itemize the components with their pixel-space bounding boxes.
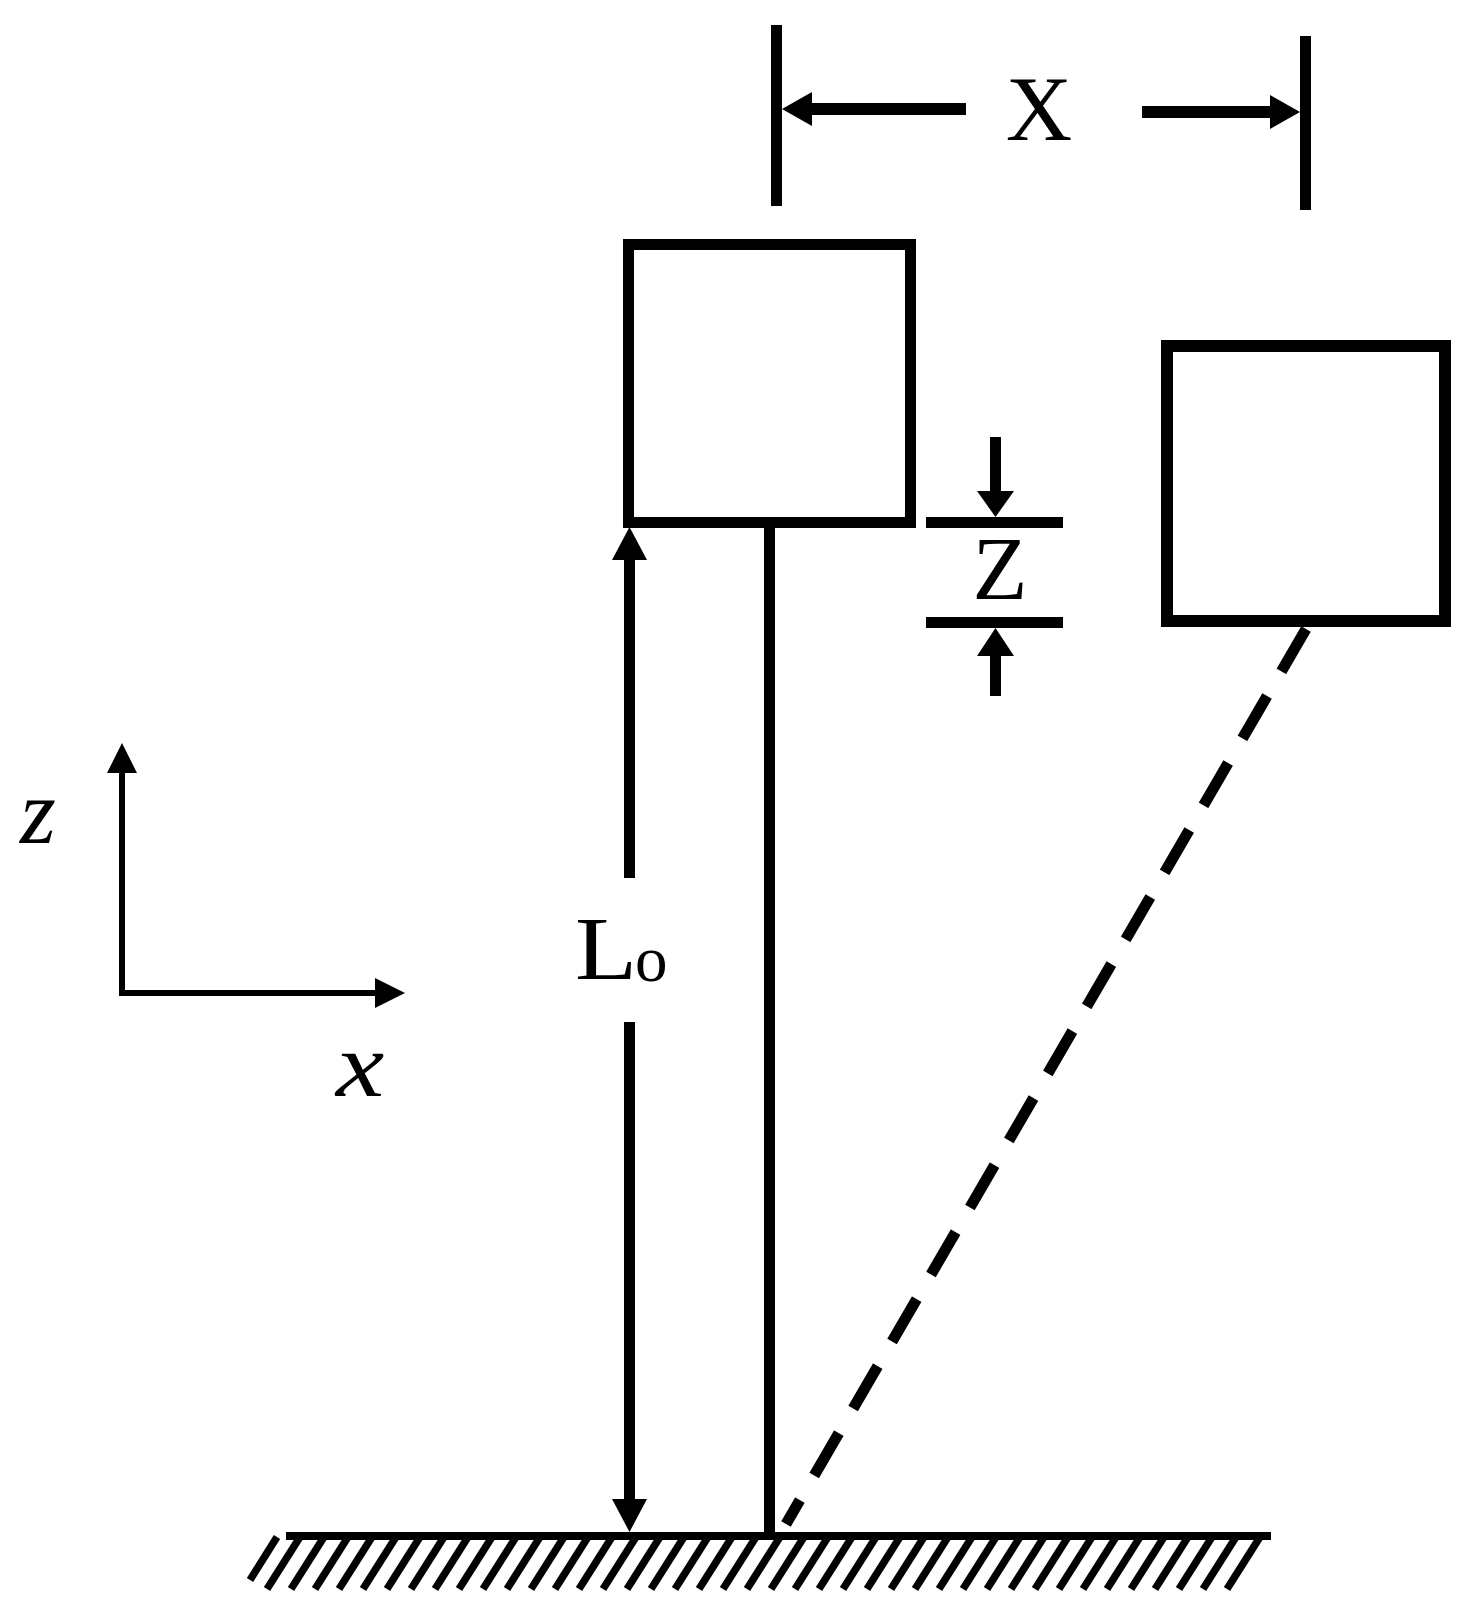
dimension X: right arrowhead — [1270, 95, 1300, 129]
dashed deflection line — [786, 629, 1306, 1524]
dimension X: left extension tick — [771, 25, 782, 206]
dimension X: right arrow shaft — [1142, 106, 1274, 118]
dimension X: right extension tick — [1300, 36, 1311, 210]
svg-text:x: x — [334, 1014, 384, 1116]
rod (leaf spring column) — [764, 523, 775, 1534]
dimension Lo: down arrowhead — [612, 1499, 647, 1532]
mass block M (displaced position) — [1167, 346, 1445, 621]
dimension Z: top arrowhead — [977, 491, 1014, 517]
dimension Z: top arrow shaft — [990, 437, 1001, 493]
coordinate axis x: horizontal shaft — [120, 990, 380, 996]
svg-text:o: o — [635, 924, 668, 996]
mass block M (initial, on rod) — [629, 245, 911, 523]
dimension Lo: lower shaft — [624, 1022, 635, 1504]
svg-text:L: L — [575, 898, 637, 998]
coordinate axis x: arrowhead — [375, 978, 405, 1008]
coordinate axis z: arrowhead — [107, 743, 137, 773]
dimension Lo: upper shaft — [624, 556, 635, 878]
svg-text:z: z — [18, 761, 56, 863]
dimension Z: upper bar — [926, 517, 1063, 528]
ground line — [286, 1532, 1271, 1540]
dimension Z: bottom arrowhead — [977, 628, 1014, 656]
ground hatching — [250, 1537, 1260, 1589]
svg-text:X: X — [1006, 58, 1072, 160]
dimension Lo: up arrowhead — [612, 527, 647, 560]
coordinate axis z: vertical shaft — [119, 765, 125, 996]
dimension Z: lower bar — [926, 617, 1063, 628]
svg-text:Z: Z — [973, 520, 1028, 619]
dimension Z: bottom arrow shaft — [990, 654, 1001, 696]
dimension X: left arrow shaft — [806, 103, 966, 115]
dimension X: left arrowhead — [782, 92, 812, 126]
